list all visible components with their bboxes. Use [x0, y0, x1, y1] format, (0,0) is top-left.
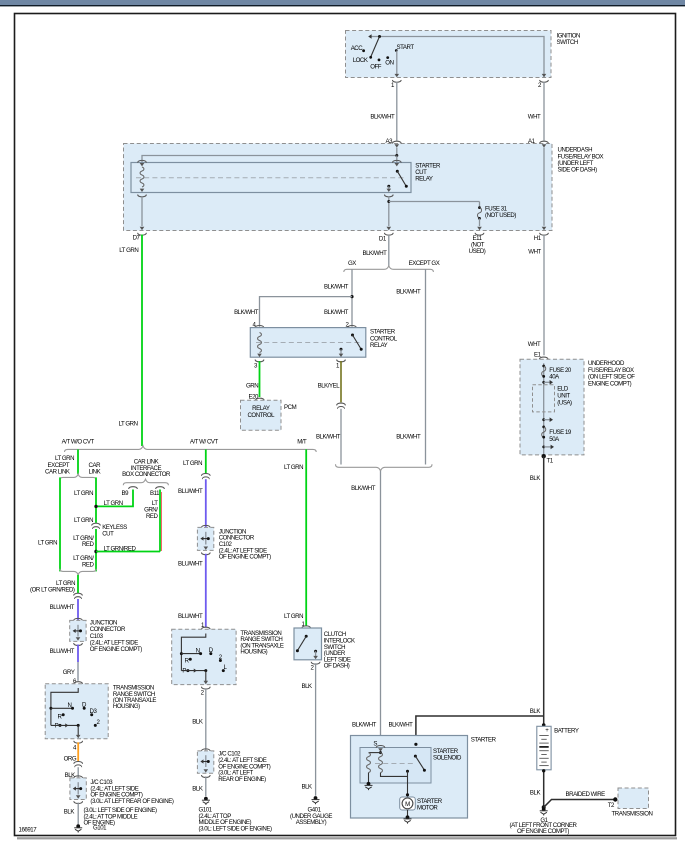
svg-text:BLK/WHT: BLK/WHT — [352, 722, 377, 729]
ignition switch pin 1 — [395, 74, 400, 77]
svg-text:ENGINE COMPT): ENGINE COMPT) — [588, 380, 632, 387]
svg-text:PCM: PCM — [284, 404, 297, 411]
svg-text:SWITCH: SWITCH — [557, 39, 578, 46]
ignition switch feed wire from pin 2 — [372, 37, 545, 78]
ignition switch wiper arm — [371, 37, 380, 58]
svg-text:D3: D3 — [90, 708, 98, 715]
svg-text:(USA): (USA) — [557, 400, 572, 407]
svg-text:BLK/WHT: BLK/WHT — [363, 250, 388, 257]
inline connector on starter signal wire — [337, 403, 346, 405]
svg-text:LT GRN: LT GRN — [119, 421, 138, 428]
starter cut relay output pin (bottom) — [388, 186, 390, 189]
svg-text:(3.0L: AT LEFT REAR OF ENGINE): (3.0L: AT LEFT REAR OF ENGINE) — [90, 798, 173, 805]
junction car link / B9 — [94, 505, 97, 508]
solenoid hold-in winding — [367, 753, 371, 773]
ground G1 — [540, 807, 548, 815]
battery top junction — [542, 723, 546, 727]
svg-text:LT GRN: LT GRN — [38, 539, 57, 546]
wire WHT ignition pin2 to underdash A1 — [543, 82, 545, 141]
wire car-link branch upper — [95, 477, 97, 523]
branch node with arrow — [542, 381, 545, 384]
svg-text:CAR LINK: CAR LINK — [45, 469, 70, 476]
branch node with arrow — [542, 446, 545, 449]
wire BLK/WHT merged, down to starter S — [380, 471, 382, 746]
starter cut relay coil pin (bottom) — [140, 189, 145, 192]
svg-text:BLK/YEL: BLK/YEL — [318, 383, 341, 390]
starter motor ground — [407, 810, 409, 816]
svg-text:USED): USED) — [469, 248, 486, 255]
svg-text:REAR OF ENGINE): REAR OF ENGINE) — [218, 776, 266, 783]
svg-text:T1: T1 — [547, 458, 554, 465]
svg-text:BLK: BLK — [192, 785, 203, 792]
wire BLK battery feed to starter B terminal — [416, 716, 544, 756]
ground G401 — [312, 796, 320, 804]
inline connector — [201, 473, 210, 475]
wire BLU/WHT down to junction connector C103 — [77, 599, 79, 620]
svg-text:BLK/WHT: BLK/WHT — [234, 309, 259, 316]
transmission range switch 2 box — [172, 629, 236, 684]
ELD unit box — [533, 385, 555, 412]
svg-text:BLU/WHT: BLU/WHT — [50, 604, 75, 611]
ignition switch START contact wire to pin 1 — [396, 51, 398, 75]
svg-text:A/T W/ CVT: A/T W/ CVT — [190, 438, 219, 445]
ground G101 (left) — [74, 824, 82, 832]
svg-text:166917: 166917 — [19, 827, 38, 834]
clutch interlock switch box — [294, 628, 322, 660]
coil bottom pin 3 — [257, 354, 262, 357]
svg-text:HOUSING): HOUSING) — [113, 703, 140, 710]
keyless cut connector — [92, 523, 101, 525]
fuse 20 40A — [542, 365, 545, 368]
wire BLK/WHT to merge — [340, 409, 342, 465]
clutch interlock switch contacts — [305, 635, 308, 638]
pin A1 — [540, 141, 549, 143]
svg-text:LT GRN: LT GRN — [74, 517, 93, 524]
J/C C103 connector — [74, 776, 83, 778]
fuse 19 50A — [542, 426, 545, 429]
svg-text:CUT: CUT — [102, 531, 114, 538]
wire BLK to ground G101 (middle) — [205, 776, 207, 796]
top browser bar — [0, 0, 685, 5]
svg-text:WHT: WHT — [528, 113, 541, 120]
battery plates — [539, 735, 548, 737]
pin 4 — [255, 325, 264, 327]
solenoid switch — [414, 743, 417, 746]
svg-text:BLK/WHT: BLK/WHT — [370, 113, 395, 120]
svg-text:HOUSING): HOUSING) — [240, 649, 267, 656]
svg-text:STARTER: STARTER — [471, 737, 497, 744]
starter cut relay switch pin (top) — [392, 160, 401, 162]
svg-text:START: START — [397, 44, 415, 51]
switch output pin 1 — [340, 349, 342, 354]
svg-text:BLU/WHT: BLU/WHT — [178, 613, 203, 620]
svg-text:A/T W/O CVT: A/T W/O CVT — [62, 438, 95, 445]
svg-text:BLK: BLK — [302, 783, 313, 790]
svg-text:WHT: WHT — [528, 341, 541, 348]
merge brace GX/EXCEPT GX — [336, 464, 433, 471]
svg-text:OF DASH): OF DASH) — [324, 663, 350, 670]
svg-text:H1: H1 — [534, 235, 542, 242]
svg-text:UNIT: UNIT — [557, 393, 570, 400]
svg-text:WHT: WHT — [528, 248, 541, 255]
starter box — [351, 736, 468, 819]
svg-text:(NOT USED): (NOT USED) — [485, 212, 516, 219]
svg-text:BOX CONNECTOR: BOX CONNECTOR — [122, 471, 171, 478]
wire GX branch down — [351, 269, 353, 327]
pin A3 — [392, 141, 401, 143]
svg-text:CONTROL: CONTROL — [247, 412, 275, 419]
ground G101 (middle) — [202, 797, 210, 805]
wire M node to starter motor — [407, 771, 409, 797]
inline connector — [74, 761, 83, 763]
svg-text:OF ENGINE COMPT): OF ENGINE COMPT) — [517, 828, 569, 835]
junction node GX branch — [350, 295, 353, 298]
svg-text:M/T: M/T — [297, 438, 307, 445]
starter control relay coil — [258, 333, 262, 353]
fuse 31 (not used) — [479, 202, 481, 208]
starter control relay box — [250, 328, 365, 358]
range switch 1 internal wiring — [51, 688, 78, 725]
svg-text:BLK/WHT: BLK/WHT — [324, 284, 349, 291]
wire LT GRN (OR LT GRN/RED) — [77, 575, 79, 593]
merge brace car link variants — [60, 569, 96, 575]
wire GRN relay pin3 to PCM — [259, 361, 261, 397]
starter cut relay switch — [396, 170, 399, 173]
svg-text:B11: B11 — [150, 490, 160, 497]
node T2 — [613, 797, 617, 801]
ignition switch pin 2 — [542, 74, 547, 77]
svg-text:LT GRN: LT GRN — [55, 455, 74, 462]
transmission box — [618, 788, 649, 809]
starter cut relay coil pin (top) — [138, 160, 147, 162]
svg-text:BLK/WHT: BLK/WHT — [396, 433, 421, 440]
svg-text:ASSEMBLY): ASSEMBLY) — [296, 819, 327, 826]
junction connector C102 — [201, 525, 210, 527]
split brace EXCEPT CAR LINK / CAR LINK — [60, 474, 96, 480]
svg-text:LOCK: LOCK — [353, 57, 368, 64]
wire BLU/WHT down to junction connector C102 — [205, 479, 207, 527]
svg-text:BATTERY: BATTERY — [554, 728, 579, 735]
wire BLK/WHT ignition pin1 to underdash A3 — [396, 82, 398, 141]
node E20 pin into PCM — [255, 398, 264, 400]
svg-text:BLK/WHT: BLK/WHT — [316, 433, 341, 440]
wire BLU/WHT down to range switch 2 — [205, 554, 207, 628]
wire LT GRN/RED below keyless cut — [95, 529, 97, 571]
svg-text:OF ENGINE COMPT): OF ENGINE COMPT) — [219, 554, 271, 561]
svg-text:D7: D7 — [133, 235, 141, 242]
svg-text:LT GRN: LT GRN — [284, 464, 303, 471]
svg-text:LT GRN: LT GRN — [104, 500, 123, 507]
svg-text:LT GRN: LT GRN — [74, 490, 93, 497]
wire BLK T1 to battery — [543, 456, 545, 725]
wire ORG — [77, 742, 79, 761]
svg-text:(3.0L: LEFT SIDE OF ENGINE): (3.0L: LEFT SIDE OF ENGINE) — [199, 825, 272, 832]
svg-text:RED: RED — [82, 541, 95, 548]
underhood fuse/relay box — [520, 359, 584, 455]
svg-text:BRAIDED WIRE: BRAIDED WIRE — [566, 791, 606, 798]
wire BLK battery negative to ground G1 — [543, 770, 545, 808]
svg-text:(OR LT GRN/RED): (OR LT GRN/RED) — [30, 586, 75, 593]
svg-text:OF ENGINE COMPT): OF ENGINE COMPT) — [90, 646, 142, 653]
pin B9 — [129, 487, 138, 489]
wire BLK down to J/C C102 — [205, 688, 207, 750]
wire BLK to ground G101 — [77, 803, 79, 825]
bottom shadow — [17, 837, 677, 839]
wire LT GRN D7 down to split — [141, 235, 143, 447]
wire A3 feed splitting to coil and switch — [142, 148, 397, 162]
svg-text:SIDE OF DASH): SIDE OF DASH) — [558, 167, 598, 174]
svg-text:SOLENOID: SOLENOID — [433, 755, 462, 762]
wire BLK/YEL relay pin1 down — [340, 361, 342, 402]
svg-text:G101: G101 — [93, 825, 107, 832]
svg-text:BLK/WHT: BLK/WHT — [324, 309, 349, 316]
svg-text:P: P — [55, 723, 59, 730]
wire BLU/WHT then GRY to range switch — [77, 645, 79, 663]
wire LT GRN except-car-link down — [59, 477, 61, 571]
pin D1 — [387, 227, 392, 230]
wire coil to D7 — [141, 196, 143, 226]
svg-text:RED: RED — [82, 561, 95, 568]
internal feed wire — [543, 363, 545, 456]
svg-text:BLK: BLK — [530, 790, 541, 797]
wire to relay pin 4 — [260, 297, 353, 327]
svg-text:M: M — [405, 801, 410, 808]
svg-text:B9: B9 — [122, 490, 130, 497]
ignition switch box — [346, 31, 552, 78]
starter motor — [400, 797, 416, 810]
svg-text:T2: T2 — [608, 802, 615, 809]
svg-text:BLU/WHT: BLU/WHT — [50, 648, 75, 655]
svg-text:BLK/WHT: BLK/WHT — [389, 722, 414, 729]
svg-text:BLK/WHT: BLK/WHT — [396, 289, 421, 296]
pull-in winding to motor node — [381, 773, 408, 777]
svg-text:BLK: BLK — [64, 808, 75, 815]
solenoid dashed link — [375, 763, 414, 765]
underdash fuse/relay box — [124, 144, 553, 231]
wire BLK down to ground G401 — [315, 663, 317, 795]
svg-text:D1: D1 — [379, 236, 387, 243]
pin B11 — [156, 487, 165, 489]
svg-text:TRANSMISSION: TRANSMISSION — [612, 811, 653, 818]
svg-text:RELAY: RELAY — [252, 405, 270, 412]
pin H1 — [542, 227, 547, 230]
svg-text:LT GRN: LT GRN — [183, 460, 202, 467]
wire LT GRN/RED from B11 down — [159, 490, 161, 552]
junction with B11 wire — [94, 550, 97, 553]
PCM box — [241, 400, 282, 430]
svg-text:ON: ON — [385, 59, 393, 66]
wire LT GRN from B9 to car-link wire junction — [96, 490, 133, 507]
svg-text:N: N — [196, 647, 200, 654]
starter control relay switch — [351, 334, 354, 337]
svg-text:ACC: ACC — [351, 45, 364, 52]
wire A1 to H1 inside box — [543, 148, 545, 226]
ignition switch position contacts — [362, 49, 365, 52]
svg-text:40A: 40A — [549, 374, 560, 381]
solenoid windings feed — [380, 752, 382, 753]
svg-text:BLU/WHT: BLU/WHT — [178, 560, 203, 567]
svg-text:A3: A3 — [386, 138, 394, 145]
pin E11 — [477, 227, 482, 230]
svg-text:BLK: BLK — [192, 718, 203, 725]
clutch interlock switch pin 2 — [315, 651, 317, 656]
svg-text:GRN: GRN — [246, 383, 258, 390]
svg-text:RED: RED — [146, 513, 159, 520]
svg-text:LINK: LINK — [89, 469, 101, 476]
svg-text:N: N — [68, 702, 72, 709]
junction connector C103 — [74, 618, 83, 620]
range switch 1 pin 4 — [76, 735, 81, 738]
svg-text:RELAY: RELAY — [415, 176, 433, 183]
inline connector — [74, 593, 83, 595]
wire BLK/WHT D1 down — [388, 235, 390, 266]
starter solenoid box — [360, 748, 431, 784]
svg-text:BLK: BLK — [302, 683, 313, 690]
hold-in winding ground — [368, 773, 370, 784]
svg-text:BLK: BLK — [530, 708, 541, 715]
starter cut relay mechanical link (dashed) — [136, 177, 406, 179]
split brace GX / EXCEPT GX — [344, 266, 434, 272]
svg-text:RELAY: RELAY — [370, 342, 388, 349]
J/C C102 connector — [201, 749, 210, 751]
svg-text:50A: 50A — [549, 436, 560, 443]
node T1 — [542, 454, 546, 458]
wire relay output to D1 and fuse 31 branch — [388, 196, 390, 226]
range switch 2 internal wiring — [181, 634, 205, 671]
starter cut relay coil — [140, 167, 144, 187]
svg-text:GRY: GRY — [63, 669, 75, 676]
starter control relay mechanical link (dashed) — [256, 342, 360, 344]
wire LT GRN branch down to clutch interlock switch — [305, 449, 307, 626]
wire WHT H1 to E1 — [543, 235, 545, 355]
wire LT GRN branch down — [77, 449, 79, 474]
transmission range switch 1 box — [45, 684, 108, 739]
svg-text:E20: E20 — [249, 394, 260, 401]
pin D7 — [140, 227, 145, 230]
svg-text:LT GRN: LT GRN — [119, 247, 138, 254]
wire EXCEPT GX branch down — [425, 269, 427, 464]
svg-text:ORG: ORG — [64, 756, 77, 763]
svg-text:GX: GX — [348, 260, 356, 267]
svg-text:BLK: BLK — [530, 475, 541, 482]
wire BLK to J/C C103 — [77, 767, 79, 777]
svg-text:BLU/WHT: BLU/WHT — [178, 488, 203, 495]
car link connector brace with pins B9 B11 — [123, 479, 168, 485]
svg-text:EXCEPT GX: EXCEPT GX — [409, 260, 440, 267]
starter cut relay inner box — [131, 163, 411, 193]
wire LT GRN branch down — [205, 449, 207, 473]
svg-text:LT GRN/RED: LT GRN/RED — [104, 545, 137, 552]
battery — [537, 726, 551, 770]
svg-text:OFF: OFF — [370, 63, 382, 70]
branch node with arrow — [542, 418, 545, 421]
svg-text:BLK/WHT: BLK/WHT — [351, 485, 376, 492]
pin 2 — [348, 325, 357, 327]
ignition switch wiper junction — [378, 35, 381, 38]
braided wire to transmission — [544, 800, 615, 808]
svg-text:MOTOR: MOTOR — [417, 805, 438, 812]
ground G1 junction — [542, 805, 546, 809]
split brace A/T W/O CVT / A/T W/ CVT / M/T — [65, 446, 317, 452]
solenoid pull-in winding — [379, 753, 383, 773]
range switch 2 pin 2 — [204, 681, 209, 684]
svg-text:LT GRN: LT GRN — [284, 613, 303, 620]
svg-text:A1: A1 — [528, 138, 536, 145]
svg-text:ELD: ELD — [557, 386, 569, 393]
